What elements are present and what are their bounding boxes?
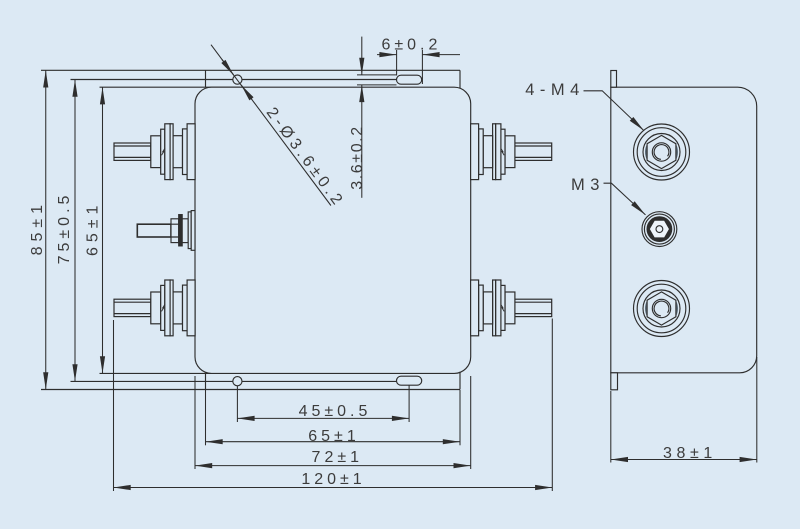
extensions from slot ends up to dim 6 <box>396 50 398 76</box>
top flange left edge <box>205 70 207 87</box>
svg-text:3.6±0.2: 3.6±0.2 <box>349 125 366 189</box>
top mounting hole <box>233 75 242 84</box>
extent line: body top + 65 dim extension <box>100 86 241 88</box>
bottom flange right edge <box>459 372 461 390</box>
leader for 2-Ø3.6 holes <box>211 45 331 206</box>
svg-text:65±1: 65±1 <box>85 201 102 256</box>
dim 45±0.5 row <box>236 386 238 422</box>
M4 screw bottom (side view) <box>634 281 690 337</box>
svg-text:72±1: 72±1 <box>312 449 363 466</box>
terminal TL: top-left screw terminal stack <box>114 124 195 180</box>
svg-text:120±1: 120±1 <box>301 471 365 488</box>
dim 65±1 vertical line <box>102 87 104 373</box>
bottom mounting slot <box>397 376 422 385</box>
dim 72±1 row <box>194 376 196 469</box>
top mounting slot <box>397 75 422 84</box>
dim 120±1 row <box>113 320 115 491</box>
svg-text:38±1: 38±1 <box>663 445 717 462</box>
top flange tab (edge view) <box>611 71 617 88</box>
M3 screw (side view) <box>642 212 677 247</box>
terminal ML: middle-left ground stud <box>137 211 195 251</box>
svg-text:45±0.5: 45±0.5 <box>299 403 372 420</box>
lock washer (dark) <box>179 215 183 246</box>
terminal BL: bottom-left screw terminal (copy of TL) <box>114 280 195 336</box>
terminal BR: bottom-right screw terminal (mirror of TL) <box>471 280 552 336</box>
dim 75±0.5 vertical line <box>74 80 76 382</box>
extent line: flange bottom line + 75 dim extension <box>71 79 397 81</box>
top flange right edge <box>459 70 461 88</box>
bottom mounting hole <box>233 377 242 386</box>
dim 38±1 row (side view) <box>610 391 612 463</box>
side panel outline <box>611 87 757 373</box>
dim 6±0.2 (slot length): outside arrows <box>377 54 397 56</box>
M4 screw top (side view) <box>634 124 690 180</box>
dim 3.6±0.2 vertical line with outside arrows <box>361 37 363 75</box>
svg-text:75±0.5: 75±0.5 <box>56 192 73 265</box>
dim 85±1 vertical line <box>45 70 47 389</box>
extent line: flange top edge + 85 dim extension <box>41 69 460 71</box>
leader M3 <box>604 183 646 215</box>
bottom flange left edge <box>205 373 207 389</box>
extent line: body bottom + 65 dim extension <box>100 372 241 374</box>
filter body (front view) <box>195 87 471 373</box>
svg-text:65±1: 65±1 <box>308 428 359 445</box>
extent line: bottom flange upper line + 75 dim extension <box>71 380 397 382</box>
dim 65±1 row <box>205 390 207 445</box>
extent line: bottom flange bottom edge + 85 dim extension <box>41 389 460 391</box>
svg-text:4-M4: 4-M4 <box>525 81 585 99</box>
svg-text:M3: M3 <box>571 176 605 194</box>
bottom flange tab (edge view) <box>611 373 618 390</box>
svg-text:6±0.2: 6±0.2 <box>381 37 441 54</box>
terminal TR: top-right screw terminal (mirror of TL) <box>471 124 552 180</box>
dim 3.6±0.2: extension lines from slot edges <box>357 74 397 76</box>
leader 4-M4 <box>584 91 645 131</box>
svg-text:85±1: 85±1 <box>29 200 46 255</box>
